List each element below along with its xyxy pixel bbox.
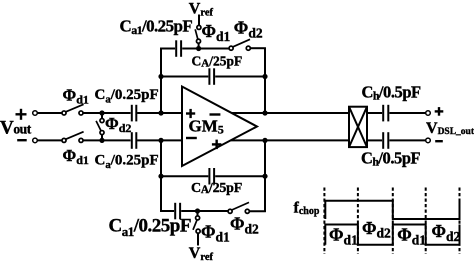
op-amp GM5 — [182, 87, 257, 167]
svg-text:fchop: fchop — [294, 200, 320, 218]
node CA bottom right junction — [262, 174, 267, 179]
waveform phi clock — [325, 225, 459, 245]
terminal Vout+ — [33, 111, 38, 116]
op-amp - output sign — [186, 137, 197, 139]
Vout + sign — [16, 113, 27, 115]
wire left feedback vertical bottom — [160, 140, 162, 212]
svg-text:Φd1: Φd1 — [63, 146, 89, 167]
svg-text:Vref: Vref — [189, 245, 214, 262]
wire Vref stem bottom — [197, 211, 199, 216]
svg-text:CA/25pF: CA/25pF — [191, 181, 242, 196]
capacitor Ch top — [383, 105, 388, 122]
svg-text:Vref: Vref — [189, 0, 214, 18]
node Vref switch top junction — [196, 46, 201, 51]
wire right feedback vertical top — [264, 48, 266, 113]
label Vout — [16, 109, 27, 140]
node amp -input junction — [158, 138, 163, 143]
node CA top right junction — [262, 74, 267, 79]
capacitor Ca bottom (input) — [132, 132, 137, 149]
label VDSL_out — [435, 107, 444, 141]
node amp +output junction — [262, 138, 267, 143]
svg-text:Ch/0.5pF: Ch/0.5pF — [362, 82, 422, 102]
op-amp + output sign — [212, 143, 222, 145]
wire top Ca1 branch — [160, 48, 175, 50]
svg-text:Vout: Vout — [0, 118, 32, 139]
wire bottom input line — [37, 139, 62, 141]
waveform f_chop — [325, 201, 459, 219]
svg-text:Φd1: Φd1 — [329, 225, 358, 248]
Vout - sign — [17, 139, 27, 141]
svg-text:Ca1/0.25pF: Ca1/0.25pF — [109, 216, 191, 240]
op-amp - input sign — [210, 113, 221, 115]
wire bottom output line — [231, 139, 349, 141]
svg-text:Φd2: Φd2 — [362, 218, 391, 241]
wire bottom CA branch — [161, 175, 208, 177]
wire bottom Ca1 branch — [160, 210, 174, 212]
capacitor Ca1 bottom — [175, 203, 180, 220]
capacitor Ca top (input) — [132, 105, 137, 122]
svg-text:Φd2: Φd2 — [432, 221, 461, 244]
terminal VDSL- — [426, 138, 431, 143]
switch S4 phi-d1 top Vref — [195, 25, 201, 43]
svg-text:Φd2: Φd2 — [105, 114, 131, 135]
switch S6 phi-d2 bottom branch — [228, 202, 249, 213]
node CA top left junction — [158, 74, 163, 79]
svg-text:Ca/0.25pF: Ca/0.25pF — [95, 87, 159, 105]
node shunt switch bottom junction — [99, 138, 104, 143]
op-amp + input sign — [186, 112, 195, 114]
capacitor CA bottom — [209, 168, 214, 185]
switch S1 phi-d1 top input — [62, 104, 84, 115]
wire top CA branch — [161, 76, 208, 78]
capacitor Ca1 top — [176, 40, 181, 57]
wire Vref stem top — [198, 15, 200, 26]
svg-text:Φd2: Φd2 — [234, 18, 263, 41]
svg-text:Ch/0.5pF: Ch/0.5pF — [361, 148, 421, 168]
wire top input line — [37, 112, 62, 114]
wire top output line — [232, 112, 349, 114]
svg-text:Φd2: Φd2 — [230, 214, 259, 237]
chopper U2 — [349, 107, 367, 147]
svg-text:Φd1: Φd1 — [201, 222, 230, 245]
node CA bottom left junction — [158, 174, 163, 179]
timing grid dashed lines — [324, 188, 459, 255]
svg-text:Φd1: Φd1 — [202, 21, 231, 44]
svg-text:Φd1: Φd1 — [397, 225, 426, 248]
switch S2 phi-d1 bottom input — [62, 132, 84, 143]
terminal VDSL+ — [426, 111, 431, 116]
capacitor Ch bottom — [383, 132, 388, 149]
switch S5 phi-d2 top branch — [229, 39, 250, 50]
wire phi-d2 input switch stubs — [101, 113, 103, 119]
svg-text:Φd1: Φd1 — [63, 86, 89, 107]
svg-text:Ca/0.25pF: Ca/0.25pF — [95, 152, 159, 170]
capacitor CA top — [209, 68, 214, 85]
svg-text:CA/25pF: CA/25pF — [192, 53, 243, 69]
node amp +input junction — [158, 110, 163, 115]
switch S7 phi-d1 bottom Vref — [193, 216, 200, 233]
VDSL - sign — [435, 140, 443, 142]
svg-text:Ca1/0.25pF: Ca1/0.25pF — [120, 17, 193, 38]
switch S3 phi-d2 input shunt — [96, 119, 104, 135]
node shunt switch top junction — [99, 110, 104, 115]
VDSL + sign — [435, 110, 444, 112]
node Vref switch bottom junction — [195, 208, 200, 213]
terminal Vout- — [33, 138, 38, 143]
svg-text:VDSL_out: VDSL_out — [426, 120, 474, 137]
node amp -output junction — [262, 110, 267, 115]
wire left feedback vertical top — [160, 48, 162, 113]
wire right feedback vertical bottom — [264, 140, 266, 212]
